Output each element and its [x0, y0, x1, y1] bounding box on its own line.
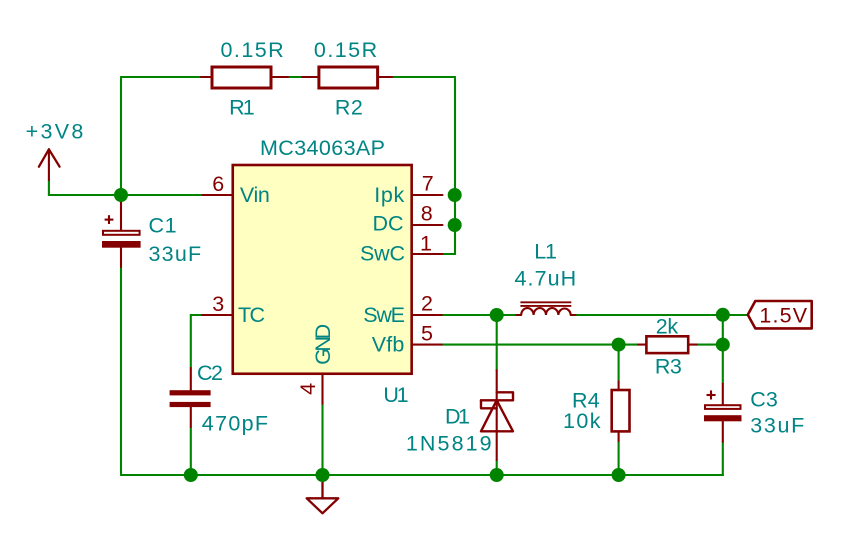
svg-text:SwC: SwC: [360, 242, 405, 266]
svg-text:1.5V: 1.5V: [759, 304, 807, 328]
svg-text:MC34063AP: MC34063AP: [260, 136, 385, 160]
svg-text:Vfb: Vfb: [372, 332, 405, 356]
svg-text:7: 7: [422, 172, 434, 196]
svg-text:1N5819: 1N5819: [406, 432, 492, 456]
svg-text:DC: DC: [373, 212, 404, 236]
svg-text:33uF: 33uF: [750, 414, 804, 438]
svg-text:1: 1: [420, 232, 432, 256]
svg-text:Ipk: Ipk: [374, 183, 404, 207]
svg-text:TC: TC: [238, 303, 265, 327]
svg-text:Vin: Vin: [240, 183, 270, 207]
svg-text:0.15R: 0.15R: [314, 38, 377, 62]
svg-text:+3V8: +3V8: [26, 120, 84, 144]
svg-text:D1: D1: [445, 405, 470, 429]
svg-text:5: 5: [421, 322, 433, 346]
svg-text:L1: L1: [534, 240, 557, 264]
svg-text:4.7uH: 4.7uH: [515, 267, 577, 291]
svg-text:33uF: 33uF: [149, 242, 202, 266]
svg-text:C1: C1: [149, 214, 177, 238]
svg-text:0.15R: 0.15R: [221, 38, 284, 62]
svg-text:6: 6: [212, 172, 224, 196]
svg-text:C3: C3: [750, 387, 778, 411]
svg-text:4: 4: [296, 383, 320, 395]
svg-text:C2: C2: [197, 361, 223, 385]
svg-text:2k: 2k: [656, 314, 679, 338]
svg-text:8: 8: [421, 202, 433, 226]
svg-text:R3: R3: [655, 355, 682, 379]
svg-text:2: 2: [421, 292, 433, 316]
svg-text:U1: U1: [383, 383, 408, 407]
svg-text:10k: 10k: [563, 409, 601, 433]
svg-text:R2: R2: [335, 96, 363, 120]
svg-text:470pF: 470pF: [202, 412, 268, 436]
svg-text:GND: GND: [311, 324, 335, 365]
svg-text:3: 3: [212, 292, 224, 316]
svg-text:R1: R1: [229, 96, 255, 120]
svg-text:SwE: SwE: [363, 303, 405, 327]
